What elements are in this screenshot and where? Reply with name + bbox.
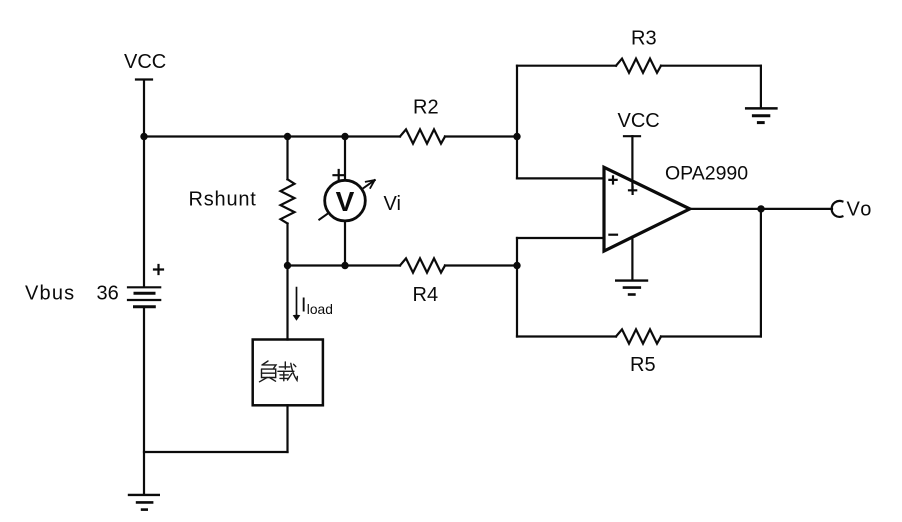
- svg-text:Vo: Vo: [847, 199, 873, 221]
- svg-text:R3: R3: [631, 27, 657, 49]
- svg-text:load: load: [307, 302, 333, 317]
- svg-text:I: I: [301, 295, 307, 317]
- svg-text:V: V: [336, 186, 355, 217]
- svg-text:Vbus: Vbus: [25, 283, 75, 305]
- svg-text:36: 36: [97, 283, 119, 305]
- svg-text:Vi: Vi: [384, 193, 401, 215]
- svg-text:Rshunt: Rshunt: [189, 189, 257, 211]
- svg-text:R2: R2: [413, 97, 439, 119]
- svg-text:R4: R4: [413, 284, 439, 306]
- svg-text:VCC: VCC: [618, 110, 660, 132]
- svg-text:VCC: VCC: [124, 51, 166, 73]
- svg-text:R5: R5: [630, 354, 656, 376]
- svg-text:OPA2990: OPA2990: [665, 162, 748, 184]
